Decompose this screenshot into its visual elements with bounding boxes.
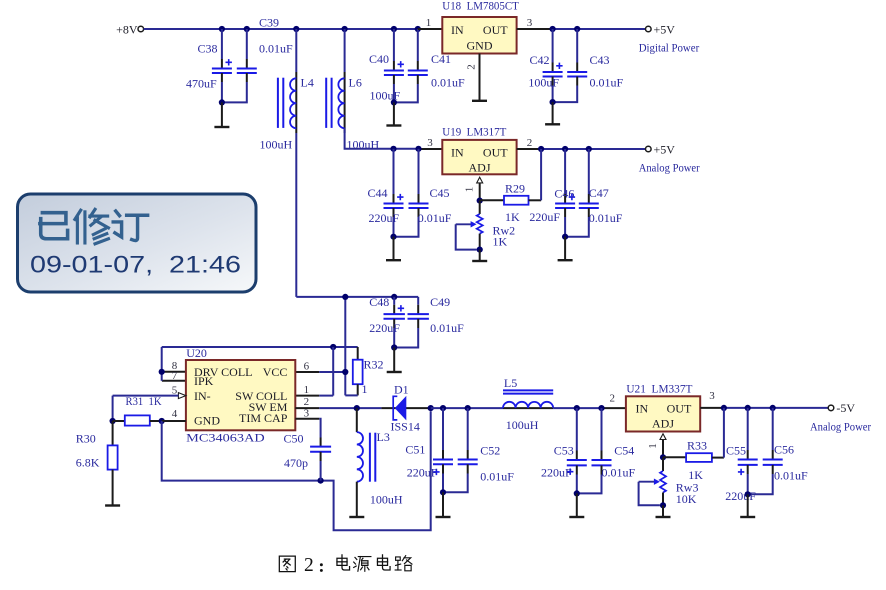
- svg-text:C54: C54: [614, 443, 634, 457]
- svg-text:220uF: 220uF: [407, 465, 438, 479]
- junction C51 top: [440, 405, 446, 411]
- capacitor C52 0.01uF: [443, 408, 514, 492]
- potentiometer Rw3 10K: [639, 457, 699, 506]
- ground C40/C41: [386, 102, 401, 125]
- svg-text:U18 LM7805CT: U18 LM7805CT: [442, 0, 519, 13]
- junction C46 top: [562, 146, 568, 152]
- svg-text:IPK: IPK: [194, 374, 214, 388]
- svg-text:IN-: IN-: [194, 389, 211, 403]
- svg-text:470uF: 470uF: [186, 77, 217, 91]
- pin 3 U19: [427, 137, 433, 149]
- inductor L6 100uH: [326, 29, 379, 151]
- junction C53 top: [574, 405, 580, 411]
- svg-text:220uF: 220uF: [541, 465, 572, 479]
- ground C53/C54: [569, 493, 584, 517]
- svg-text:C51: C51: [405, 443, 425, 457]
- junction R31/R30 node: [110, 418, 116, 424]
- terminal -5V analog: [810, 401, 871, 433]
- svg-text:1: 1: [647, 443, 659, 449]
- ground L3: [349, 516, 364, 518]
- svg-text:C42: C42: [530, 53, 550, 67]
- junction C44 top: [390, 146, 396, 152]
- junction C46/C47 bottom: [562, 234, 568, 240]
- pin 6 U20 VCC wire: [295, 360, 345, 372]
- junction C48 top: [391, 294, 397, 300]
- svg-text:100uH: 100uH: [370, 493, 403, 507]
- svg-text:U19 LM317T: U19 LM317T: [442, 124, 507, 138]
- svg-text:0.01uF: 0.01uF: [589, 211, 623, 225]
- svg-text:+5V: +5V: [654, 142, 676, 156]
- resistor R29 1K: [480, 149, 541, 224]
- svg-text:OUT: OUT: [483, 23, 508, 37]
- pin 2 U21: [610, 392, 616, 404]
- junction ADJ node U19: [477, 198, 483, 204]
- pin 2 U20 SW EM wire: [295, 396, 381, 408]
- svg-text:C50: C50: [284, 432, 304, 446]
- pin 3 U21: [709, 390, 715, 402]
- stamp date text: [30, 252, 241, 279]
- junction Rw2 bottom: [477, 247, 483, 253]
- capacitor C48 220uF electrolytic: [369, 295, 405, 348]
- svg-text:100uF: 100uF: [528, 75, 559, 89]
- regulator U21 LM337T: [626, 382, 700, 432]
- resistor R31 1K: [113, 394, 162, 426]
- svg-text:2: 2: [527, 137, 533, 149]
- svg-text:0.01uF: 0.01uF: [774, 468, 808, 482]
- inductor L5 100uH: [503, 376, 553, 432]
- pin 1 U18: [426, 17, 432, 29]
- terminal +5V analog: [639, 142, 700, 174]
- svg-text:C40: C40: [369, 52, 389, 66]
- svg-text:GND: GND: [194, 413, 220, 427]
- wire U18 OUT: [517, 28, 646, 30]
- wire VCC riser from C48 rail: [344, 297, 346, 396]
- svg-text:0.01uF: 0.01uF: [590, 75, 624, 89]
- ground C46/C47: [558, 237, 573, 261]
- svg-text:TIM CAP: TIM CAP: [239, 411, 288, 425]
- wire +8V rail: [144, 28, 418, 30]
- svg-text:C46: C46: [554, 187, 574, 201]
- svg-text:220uF: 220uF: [725, 489, 756, 503]
- junction C47 top: [586, 146, 592, 152]
- junction SW COLL riser top: [330, 344, 336, 350]
- svg-text:L6: L6: [349, 76, 362, 90]
- svg-text:U20: U20: [186, 346, 207, 360]
- svg-text:6: 6: [304, 360, 310, 372]
- junction C53/C54 bottom: [574, 490, 580, 496]
- svg-text:ADJ: ADJ: [468, 160, 490, 174]
- wire -5V raw rail: [431, 407, 503, 409]
- resistor R33 1K: [663, 408, 724, 482]
- junction C56 top: [770, 405, 776, 411]
- junction pin8 node: [159, 369, 165, 375]
- svg-text:C49: C49: [430, 295, 450, 309]
- svg-text:C56: C56: [774, 443, 794, 457]
- power port +8V: [116, 22, 138, 36]
- svg-text:2: 2: [304, 396, 310, 408]
- capacitor C43 0.01uF: [553, 29, 624, 102]
- svg-text:C48: C48: [369, 295, 389, 309]
- svg-text:ADJ: ADJ: [652, 417, 674, 431]
- svg-text:L4: L4: [301, 76, 314, 90]
- svg-text:10K: 10K: [676, 492, 697, 506]
- svg-text:L3: L3: [377, 430, 390, 444]
- pin 2 U18 GND lead: [465, 54, 479, 100]
- svg-text:OUT: OUT: [483, 145, 508, 159]
- pin 4 U20 GND wire: [162, 408, 186, 421]
- junction C44/C45 bottom: [390, 234, 396, 240]
- svg-text:Digital Power: Digital Power: [639, 41, 700, 55]
- pin 2 U19: [527, 137, 533, 149]
- svg-text:3: 3: [527, 17, 533, 29]
- svg-text:IN: IN: [636, 402, 649, 416]
- svg-text:GND: GND: [467, 38, 493, 52]
- svg-text:1: 1: [304, 384, 310, 396]
- pin 3 U18: [527, 17, 533, 29]
- capacitor C38 470uF electrolytic: [186, 29, 232, 102]
- svg-text:220uF: 220uF: [369, 321, 400, 335]
- ground C55/C56: [740, 494, 755, 517]
- svg-text:220uF: 220uF: [369, 211, 400, 225]
- svg-text:2: 2: [465, 64, 477, 70]
- potentiometer Rw2 1K: [456, 201, 515, 250]
- svg-text:1: 1: [426, 17, 432, 29]
- junction C39 top: [244, 26, 250, 32]
- junction L4 top: [293, 26, 299, 32]
- wire L6 to U19 rail: [345, 128, 443, 149]
- capacitor C46 220uF electrolytic: [529, 149, 575, 237]
- svg-text:R29: R29: [505, 181, 525, 195]
- inductor L3 100uH: [357, 408, 403, 515]
- terminal +8V: [138, 26, 144, 32]
- svg-text:C43: C43: [590, 53, 610, 67]
- svg-text:2: 2: [610, 392, 616, 404]
- svg-text:OUT: OUT: [667, 402, 692, 416]
- revision stamp box: [18, 194, 257, 292]
- stamp text yi-xiu-ding (revised): [40, 209, 148, 243]
- wire L5 to U21: [553, 407, 626, 409]
- svg-text:C38: C38: [198, 41, 218, 55]
- junction C38/C39 bottom: [219, 99, 225, 105]
- IC U20 MC34063AD: [186, 346, 295, 445]
- svg-text:VCC: VCC: [263, 365, 288, 379]
- svg-text:C45: C45: [430, 186, 450, 200]
- ground C51/C52: [436, 492, 451, 517]
- svg-text:1: 1: [464, 187, 476, 193]
- ground C48/C49: [387, 348, 402, 373]
- capacitor C50 470p: [284, 432, 332, 481]
- svg-text:C39: C39: [259, 16, 279, 30]
- svg-text:ISS14: ISS14: [391, 420, 420, 434]
- ground R30: [105, 504, 120, 506]
- ground C44/C45: [386, 237, 401, 261]
- pin 3 U20 TIM CAP wire: [295, 408, 320, 447]
- svg-text:1K: 1K: [505, 210, 520, 224]
- junction C50 bottom: [318, 478, 324, 484]
- regulator U19 LM317T: [442, 124, 516, 174]
- capacitor C47 0.01uF: [565, 149, 623, 237]
- pin 7 U20: [172, 370, 178, 382]
- svg-text:+8V: +8V: [116, 22, 138, 36]
- capacitor C40 100uF electrolytic: [369, 29, 404, 103]
- svg-text:U21 LM337T: U21 LM337T: [626, 382, 693, 396]
- svg-text:2: 2: [304, 555, 314, 576]
- svg-text:C53: C53: [554, 443, 574, 457]
- junction C40 top: [391, 26, 397, 32]
- junction C43 top: [574, 26, 580, 32]
- svg-text:IN: IN: [451, 23, 464, 37]
- junction Rw3 bottom: [660, 502, 666, 508]
- svg-text:C52: C52: [480, 443, 500, 457]
- capacitor C53 220uF electrolytic: [541, 408, 587, 493]
- ground C42/C43: [545, 102, 560, 124]
- svg-text:C47: C47: [589, 186, 609, 200]
- resistor R30 6.8K: [76, 421, 118, 504]
- diode D1 ISS14: [381, 382, 430, 433]
- svg-text:L5: L5: [504, 376, 517, 390]
- junction C41 top: [415, 26, 421, 32]
- junction R33 riser top: [721, 405, 727, 411]
- inductor L4 100uH: [260, 29, 314, 297]
- svg-text:0.01uF: 0.01uF: [418, 211, 452, 225]
- svg-text:3: 3: [427, 137, 433, 149]
- junction R29 riser top: [538, 146, 544, 152]
- ground C38/C39: [214, 102, 229, 127]
- junction C38 top: [219, 26, 225, 32]
- junction GND pin node: [159, 418, 165, 424]
- svg-text:09-01-07, 21:46: 09-01-07, 21:46: [30, 252, 241, 279]
- pin ADJ U19: [464, 177, 483, 200]
- wire SW COLL riser: [332, 347, 334, 396]
- capacitor C45 0.01uF: [394, 149, 452, 237]
- svg-text:0.01uF: 0.01uF: [259, 41, 293, 55]
- capacitor C55 220uF electrolytic: [725, 408, 758, 503]
- junction riser to VCC: [342, 294, 348, 300]
- wire pins 8-7 riser: [162, 347, 186, 381]
- pin 1 U20 SW COLL wire: [295, 384, 333, 396]
- svg-text:3: 3: [709, 390, 715, 402]
- wire U21 OUT: [700, 407, 828, 409]
- capacitor C39 0.01uF: [222, 16, 293, 103]
- junction C42/C43 bottom: [550, 99, 556, 105]
- capacitor C41 0.01uF: [394, 29, 465, 102]
- svg-text:0.01uF: 0.01uF: [431, 75, 465, 89]
- junction L6 top: [342, 26, 348, 32]
- junction C45 top: [415, 146, 421, 152]
- pin ADJ U21: [647, 434, 666, 458]
- ground Rw2: [472, 250, 487, 261]
- capacitor C42 100uF electrolytic: [528, 29, 562, 102]
- pin 5 U20 IN- arrow: [113, 384, 186, 421]
- ground Rw3: [656, 505, 671, 517]
- capacitor C49 0.01uF: [394, 295, 464, 348]
- svg-text:R32: R32: [364, 358, 384, 372]
- svg-text:0.01uF: 0.01uF: [430, 321, 464, 335]
- pin 8 U20: [172, 360, 178, 372]
- svg-text:C55: C55: [726, 443, 746, 457]
- svg-text:R33: R33: [687, 438, 707, 452]
- junction C55 top: [745, 405, 751, 411]
- junction C48/C49 bottom: [391, 344, 397, 350]
- svg-text:Analog Power: Analog Power: [639, 161, 700, 175]
- regulator U18 LM7805CT: [418, 0, 520, 54]
- capacitor C51 220uF electrolytic: [405, 408, 453, 492]
- wire U19 OUT: [517, 148, 646, 150]
- svg-text:D1: D1: [394, 382, 409, 396]
- svg-text:100uH: 100uH: [260, 137, 293, 151]
- svg-text:1: 1: [362, 382, 368, 396]
- caption figure 2 power supply circuit: [279, 555, 412, 576]
- junction L3 top: [354, 405, 360, 411]
- junction VCC node: [342, 369, 348, 375]
- junction ADJ node U21: [660, 454, 666, 460]
- svg-text:MC34063AD: MC34063AD: [186, 430, 265, 444]
- junction C51/C52 bottom: [440, 489, 446, 495]
- svg-text:0.01uF: 0.01uF: [480, 469, 514, 483]
- svg-text:C44: C44: [368, 186, 388, 200]
- svg-text:IN: IN: [451, 145, 464, 159]
- svg-text:7: 7: [172, 370, 178, 382]
- junction C55/C56 bottom: [745, 491, 751, 497]
- wire U20 top rail: [162, 347, 358, 360]
- capacitor C56 0.01uF: [748, 408, 808, 494]
- svg-text:R31 1K: R31 1K: [126, 394, 162, 408]
- ground U18: [472, 100, 487, 101]
- capacitor C44 220uF electrolytic: [368, 149, 404, 237]
- junction -5V raw node: [428, 405, 434, 411]
- svg-text:470p: 470p: [284, 456, 308, 470]
- svg-text:Analog Power: Analog Power: [810, 419, 871, 433]
- svg-text:-5V: -5V: [836, 401, 855, 415]
- resistor R32 1ohm: [345, 358, 383, 396]
- svg-text:+5V: +5V: [654, 22, 676, 36]
- svg-text:100uH: 100uH: [506, 418, 539, 432]
- capacitor C54 0.01uF: [577, 408, 636, 493]
- svg-text:4: 4: [172, 408, 178, 420]
- wire C48 rail: [296, 296, 418, 298]
- terminal +5V digital: [639, 22, 700, 54]
- svg-text:1K: 1K: [493, 234, 508, 248]
- junction C40/C41 bottom: [391, 99, 397, 105]
- junction C52 top: [465, 405, 471, 411]
- svg-text:3: 3: [304, 408, 310, 420]
- svg-text:R30: R30: [76, 432, 96, 446]
- svg-text:0.01uF: 0.01uF: [602, 465, 636, 479]
- wire GND net to -5V node: [162, 411, 431, 530]
- svg-text:6.8K: 6.8K: [76, 456, 100, 470]
- svg-text:220uF: 220uF: [529, 210, 560, 224]
- junction C54 top: [598, 405, 604, 411]
- svg-text:5: 5: [172, 384, 178, 396]
- junction C42 top: [550, 26, 556, 32]
